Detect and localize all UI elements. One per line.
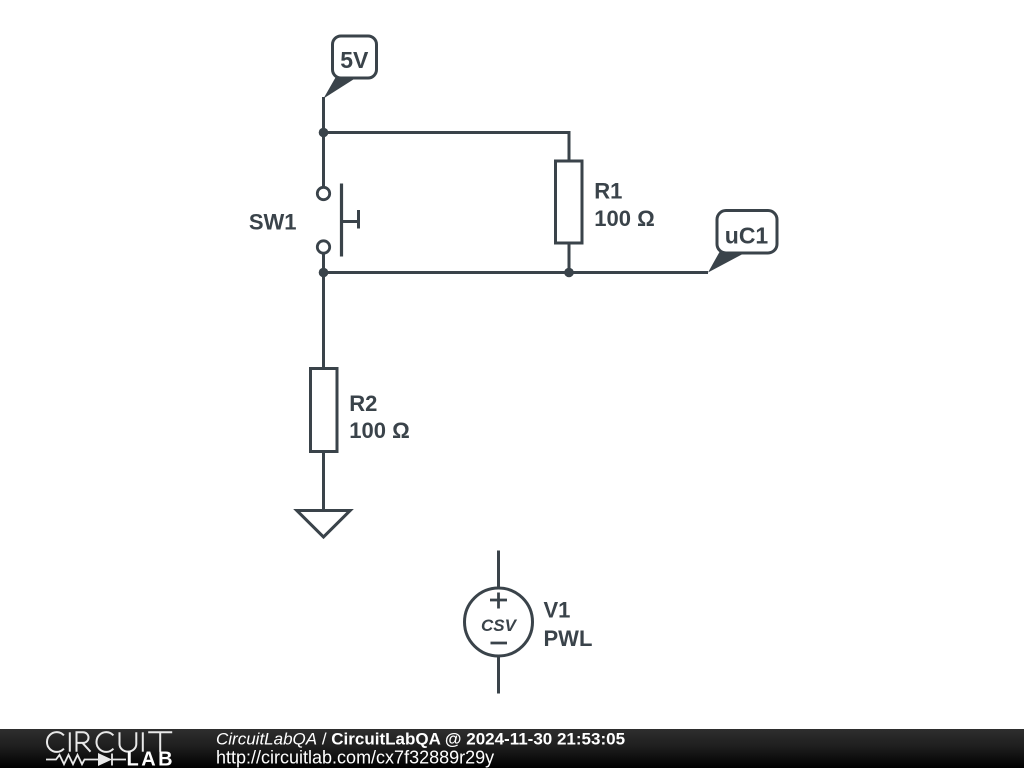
wire node to R2	[322, 273, 325, 369]
net flag 5V	[324, 36, 377, 99]
svg-text:LAB: LAB	[127, 748, 176, 768]
wire top horizontal 5V to R1	[324, 133, 570, 162]
label R1 value	[594, 179, 654, 232]
label V1 value	[544, 597, 593, 651]
svg-text:CSV: CSV	[481, 616, 518, 635]
svg-text:100 Ω: 100 Ω	[349, 418, 409, 443]
svg-text:V1: V1	[544, 597, 571, 622]
svg-text:5V: 5V	[340, 47, 369, 73]
CircuitLab logo CIRCUIT	[47, 732, 172, 752]
minus sign	[491, 642, 508, 645]
svg-text:uC1: uC1	[725, 223, 769, 249]
svg-text:SW1: SW1	[249, 210, 297, 235]
net flag uC1	[708, 211, 777, 273]
wire V1 bottom lead	[497, 656, 500, 694]
svg-text:100 Ω: 100 Ω	[594, 206, 654, 231]
CircuitLab logo diode triangle	[98, 753, 112, 766]
ground	[297, 511, 350, 538]
resistor R2	[311, 369, 338, 452]
footer bar	[0, 729, 1024, 768]
svg-text:CircuitLabQA / CircuitLabQA @: CircuitLabQA / CircuitLabQA @ 2024-11-30…	[216, 730, 625, 749]
node junction at 5V flag	[319, 128, 329, 138]
CircuitLab logo resistor-diode line	[46, 754, 126, 766]
voltage source V1	[465, 588, 533, 656]
node junction at switch output	[319, 268, 329, 278]
svg-text:R1: R1	[594, 179, 622, 204]
svg-text:R2: R2	[349, 391, 377, 416]
wire V1 top lead	[497, 551, 500, 589]
node junction at R1 bottom	[564, 268, 574, 278]
wire bottom horizontal node to uC1	[324, 271, 709, 274]
wire net 5V vertical from flag to switch	[322, 97, 325, 187]
switch SW1	[317, 184, 358, 257]
label R2 value	[349, 391, 409, 443]
wire switch bottom lead	[322, 253, 325, 273]
wire R2 to ground	[322, 452, 325, 509]
svg-text:PWL: PWL	[544, 626, 593, 651]
plus sign	[490, 593, 507, 609]
resistor R1	[556, 161, 583, 243]
wire R1 bottom lead	[568, 243, 571, 273]
svg-text:http://circuitlab.com/cx7f3288: http://circuitlab.com/cx7f32889r29y	[216, 747, 494, 767]
